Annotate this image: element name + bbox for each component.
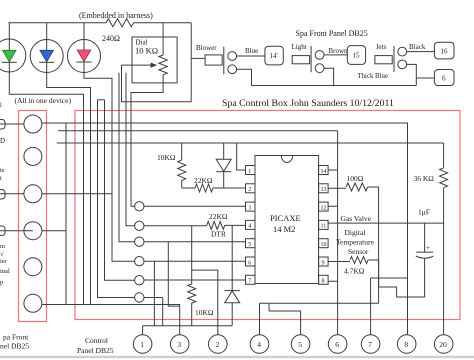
- svg-text:PICAXE: PICAXE: [270, 213, 301, 223]
- svg-text:t: t: [0, 175, 2, 182]
- svg-text:l: l: [0, 102, 2, 109]
- svg-text:√: √: [0, 250, 4, 258]
- svg-text:(All in one device): (All in one device): [15, 96, 72, 105]
- svg-text:2: 2: [216, 340, 220, 349]
- svg-text:6: 6: [335, 340, 339, 349]
- svg-text:Thick Blue: Thick Blue: [358, 73, 388, 80]
- svg-text:5: 5: [248, 242, 251, 248]
- svg-text:4: 4: [248, 224, 251, 230]
- svg-text:2: 2: [248, 187, 251, 193]
- svg-text:15: 15: [353, 52, 361, 60]
- svg-text:7: 7: [248, 279, 251, 285]
- svg-text:20: 20: [439, 340, 447, 349]
- svg-text:Brown: Brown: [329, 47, 349, 55]
- svg-text:D: D: [0, 137, 5, 145]
- svg-text:14: 14: [321, 169, 327, 175]
- svg-text:8: 8: [404, 340, 408, 349]
- svg-text:Control: Control: [85, 336, 108, 345]
- svg-text:100Ω: 100Ω: [347, 174, 364, 183]
- svg-text:10: 10: [321, 242, 327, 248]
- svg-text:9: 9: [322, 260, 325, 266]
- svg-text:Temperature: Temperature: [336, 238, 374, 247]
- svg-text:4.7KΩ: 4.7KΩ: [344, 267, 365, 276]
- svg-text:6: 6: [442, 75, 446, 83]
- svg-text:Spa Front Panel DB25: Spa Front Panel DB25: [296, 29, 368, 38]
- svg-text:3: 3: [177, 340, 181, 349]
- svg-text:14': 14': [270, 52, 278, 60]
- svg-text:Jets: Jets: [376, 43, 387, 51]
- svg-text:Blower: Blower: [196, 44, 217, 52]
- svg-text:ier: ier: [0, 258, 8, 265]
- svg-text:10KΩ: 10KΩ: [157, 153, 176, 162]
- svg-text:1μF: 1μF: [418, 208, 430, 217]
- svg-text:Black: Black: [409, 43, 426, 51]
- svg-text:36 KΩ: 36 KΩ: [414, 174, 435, 183]
- svg-text:Sensor: Sensor: [348, 247, 369, 256]
- svg-text:240Ω: 240Ω: [102, 34, 120, 43]
- svg-text:5: 5: [298, 340, 302, 349]
- svg-text:Light: Light: [292, 43, 307, 51]
- svg-text:nel DB25: nel DB25: [0, 342, 29, 351]
- svg-text:(Embedded in harness): (Embedded in harness): [79, 11, 153, 20]
- svg-text:Digital: Digital: [345, 228, 366, 237]
- svg-text:DTR: DTR: [211, 230, 226, 239]
- svg-text:14 M2: 14 M2: [273, 224, 295, 234]
- svg-text:Gas Valve: Gas Valve: [341, 214, 372, 223]
- svg-text:3: 3: [248, 205, 251, 211]
- svg-text:16: 16: [441, 48, 449, 56]
- svg-text:pa Front: pa Front: [3, 333, 29, 342]
- svg-text:13: 13: [321, 187, 327, 193]
- svg-text:m: m: [0, 243, 5, 250]
- svg-text:te: te: [0, 167, 5, 174]
- svg-text:4: 4: [257, 340, 261, 349]
- svg-text:7: 7: [368, 340, 372, 349]
- svg-text:Spa Control Box John Saunders: Spa Control Box John Saunders 10/12/2011: [222, 98, 394, 109]
- svg-text:22KΩ: 22KΩ: [209, 212, 228, 221]
- svg-text:11: 11: [321, 224, 327, 230]
- svg-text:1: 1: [140, 340, 144, 349]
- svg-text:+: +: [426, 244, 430, 252]
- svg-text:12: 12: [321, 205, 327, 211]
- svg-text:10 KΩ: 10 KΩ: [135, 46, 158, 56]
- svg-text:Blue: Blue: [245, 47, 258, 55]
- svg-text:10KΩ: 10KΩ: [195, 308, 214, 317]
- svg-text:6: 6: [248, 260, 251, 266]
- svg-text:1: 1: [248, 169, 251, 175]
- svg-text:inal: inal: [0, 268, 10, 275]
- svg-text:Panel DB25: Panel DB25: [77, 346, 114, 355]
- svg-text:8: 8: [322, 279, 325, 285]
- svg-text:p: p: [0, 279, 3, 286]
